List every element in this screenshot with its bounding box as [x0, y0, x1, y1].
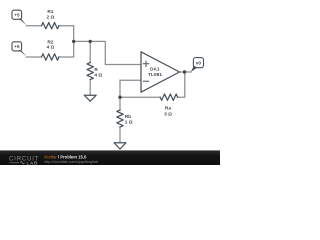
svg-text:R2: R2 — [47, 39, 53, 45]
svg-text:R: R — [94, 67, 98, 73]
resistor Rb (vertical) — [117, 110, 123, 127]
footer title text — [44, 155, 98, 164]
resistor Ra (horizontal feedback) — [160, 94, 177, 100]
op-amp U1 triangle — [141, 52, 180, 92]
wire +5 to R1 — [26, 25, 41, 27]
wire +5 to R2 — [26, 56, 41, 58]
svg-text:TL081: TL081 — [148, 72, 162, 78]
wire - input — [120, 79, 141, 81]
wire node to Rb — [119, 97, 121, 110]
junction node dots — [72, 40, 186, 99]
svg-text:Rb: Rb — [125, 114, 131, 120]
voltage flag +5 (bottom source) — [12, 42, 26, 57]
svg-text:+5: +5 — [14, 12, 20, 17]
svg-text:R1: R1 — [47, 9, 53, 15]
svg-text:http://circuitlab.com/c/pgs8nr: http://circuitlab.com/c/pgs8nrg9ab — [44, 160, 98, 164]
wire - input down to feedback node — [119, 80, 121, 97]
svg-text:4 Ω: 4 Ω — [46, 45, 54, 51]
svg-text:3 Ω: 3 Ω — [164, 111, 172, 117]
output wire — [180, 71, 192, 73]
wire Ra to node — [120, 96, 160, 98]
wire Rb to ground — [119, 127, 121, 143]
wire output down to feedback — [178, 72, 185, 97]
ground (below R) — [84, 95, 96, 101]
wire bus to op-amp + input — [74, 41, 141, 64]
svg-text:1 Ω: 1 Ω — [125, 120, 133, 126]
op-amp - marker — [143, 80, 148, 82]
svg-text:Ra: Ra — [165, 106, 171, 112]
voltage flag +5 (top source) — [12, 10, 26, 25]
op-amp + marker — [143, 61, 148, 66]
wire R to ground — [89, 80, 91, 96]
svg-text:OA1: OA1 — [150, 66, 160, 72]
svg-text:4 Ω: 4 Ω — [94, 72, 102, 78]
wire R1 to node — [59, 26, 74, 42]
resistor R1 — [42, 23, 59, 29]
wire R2 to node — [59, 41, 74, 57]
footer CircuitLab logo — [9, 157, 39, 166]
ground (below Rb) — [114, 143, 126, 149]
svg-text:v0: v0 — [196, 60, 202, 65]
wire node to resistor R — [89, 41, 91, 62]
voltage flag v0 — [191, 58, 204, 72]
resistor R (vertical) — [87, 63, 93, 80]
svg-text:+5: +5 — [14, 44, 20, 49]
svg-text:LAB: LAB — [27, 161, 39, 165]
resistor R2 — [42, 54, 59, 60]
svg-text:2 Ω: 2 Ω — [46, 14, 54, 20]
